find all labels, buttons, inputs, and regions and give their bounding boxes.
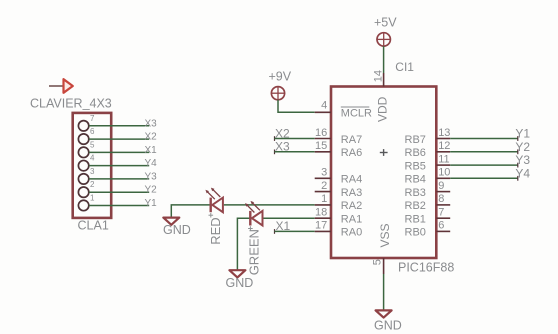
pin 6 stub (436, 230, 450, 232)
pin numbers left (315, 99, 327, 231)
ground under RED led (163, 218, 179, 225)
wire X3 to RA6 (274, 151, 314, 153)
svg-text:1: 1 (90, 194, 95, 203)
wire net Y1 (89, 204, 149, 206)
LED RED origin cross (209, 213, 214, 218)
svg-text:5: 5 (90, 140, 95, 149)
pin stubs right (436, 139, 450, 232)
svg-text:Y3: Y3 (145, 171, 158, 182)
pin 10 stub (436, 177, 450, 179)
pin circle 3 (78, 174, 88, 184)
wire net Y4 (RB4) (450, 177, 518, 179)
pin 13 stub (436, 138, 450, 140)
svg-text:GND: GND (163, 223, 191, 237)
svg-text:X3: X3 (145, 118, 158, 129)
svg-text:Y4: Y4 (145, 158, 158, 169)
svg-text:+5V: +5V (374, 16, 397, 30)
connector CLA1 body (73, 113, 112, 218)
pin 15 stub (315, 151, 331, 153)
svg-text:4: 4 (90, 154, 95, 163)
svg-text:3: 3 (321, 167, 327, 179)
pin 17 stub (315, 230, 331, 232)
svg-text:Y2: Y2 (515, 140, 530, 154)
ground under GREEN led (229, 270, 245, 277)
svg-text:11: 11 (438, 153, 449, 165)
svg-text:7: 7 (438, 207, 444, 219)
wire VSS to GND (383, 274, 385, 310)
svg-text:17: 17 (315, 220, 327, 232)
svg-text:6: 6 (438, 220, 444, 232)
pin names left (341, 108, 372, 239)
svg-text:GREEN: GREEN (247, 229, 262, 275)
wire net Y2 (89, 191, 149, 193)
svg-text:8: 8 (438, 193, 444, 205)
svg-text:RB2: RB2 (405, 200, 426, 212)
LED GREEN origin cross (248, 226, 253, 231)
svg-text:VSS: VSS (378, 223, 392, 247)
svg-text:3: 3 (90, 167, 95, 176)
pin 12 stub (436, 151, 450, 153)
svg-text:RA7: RA7 (341, 134, 362, 146)
svg-text:2: 2 (90, 180, 95, 189)
svg-text:2: 2 (321, 180, 327, 192)
wire net Y3 (89, 178, 149, 180)
svg-text:RA4: RA4 (341, 174, 362, 186)
wire RED led anode to RA2 (224, 204, 315, 206)
wire net Y4 (89, 165, 149, 167)
svg-text:X1: X1 (145, 145, 158, 156)
svg-text:10: 10 (438, 167, 450, 179)
svg-text:Y2: Y2 (145, 185, 158, 196)
wire net X3 (89, 125, 149, 127)
pin circle 7 (78, 121, 88, 131)
LED D2 GREEN cathode bar (249, 211, 251, 226)
pin circle 1 (78, 200, 88, 210)
wire net X1 (89, 151, 149, 153)
pin 4 stub (315, 111, 331, 113)
svg-text:RB3: RB3 (405, 187, 426, 199)
pin 8 stub (436, 204, 450, 206)
pin circle 6 (78, 134, 88, 144)
svg-text:RB4: RB4 (405, 174, 426, 186)
wire +9V to MCLR (278, 100, 315, 113)
svg-text:Y3: Y3 (515, 153, 530, 167)
svg-text:RA2: RA2 (341, 200, 362, 212)
pin 11 stub (436, 164, 450, 166)
svg-text:RB7: RB7 (405, 134, 426, 146)
pin 18 stub (315, 217, 331, 219)
ground under VSS (376, 310, 392, 317)
svg-text:RED: RED (208, 217, 223, 244)
svg-text:1: 1 (321, 193, 327, 205)
svg-text:12: 12 (438, 140, 450, 152)
svg-text:CLA1: CLA1 (78, 219, 109, 233)
junction arrow marker (49, 79, 73, 93)
wire net Y1 (RB7) (450, 138, 518, 140)
supply +5V (376, 32, 391, 47)
pin names right (405, 134, 426, 239)
svg-text:X2: X2 (145, 132, 158, 143)
pin circle 5 (78, 147, 88, 157)
svg-text:CI1: CI1 (395, 60, 414, 74)
LED D2 GREEN triangle (252, 211, 263, 226)
svg-text:RB6: RB6 (405, 147, 426, 159)
wire X1 to RA0 (274, 230, 314, 232)
svg-text:18: 18 (315, 207, 327, 219)
LED D1 RED cathode bar (209, 198, 211, 213)
svg-text:MCLR: MCLR (341, 108, 372, 120)
pin 5 stub (VSS) (383, 258, 385, 274)
svg-text:RB1: RB1 (405, 214, 426, 226)
supply +9V (271, 86, 285, 101)
svg-text:RA3: RA3 (341, 187, 362, 199)
svg-text:5: 5 (371, 259, 383, 265)
pin 2 stub (315, 191, 331, 193)
pin circle 2 (78, 187, 88, 197)
svg-text:15: 15 (315, 140, 327, 152)
svg-text:Y1: Y1 (515, 127, 530, 141)
svg-text:PIC16F88: PIC16F88 (398, 260, 454, 274)
pin 14 stub (VDD) (383, 73, 385, 87)
wire GREEN led anode to RA1 (264, 217, 315, 219)
svg-text:VDD: VDD (376, 96, 390, 122)
svg-text:7: 7 (90, 114, 95, 123)
MCLR overline (341, 106, 370, 108)
pin 7 stub (436, 217, 450, 219)
LED D1 RED triangle (212, 198, 223, 213)
svg-text:RB5: RB5 (405, 160, 426, 172)
svg-text:14: 14 (372, 70, 384, 82)
pin numbers right (438, 127, 450, 232)
pin 1 stub (315, 204, 331, 206)
svg-text:+9V: +9V (269, 70, 292, 84)
pin 3 stub (315, 177, 331, 179)
svg-text:RB0: RB0 (405, 227, 426, 239)
svg-text:6: 6 (90, 127, 95, 136)
LED D1 RED emission arrows (205, 188, 220, 200)
wire net Y2 (RB6) (450, 151, 518, 153)
svg-text:Y1: Y1 (145, 198, 158, 209)
svg-text:GND: GND (226, 276, 254, 290)
wire X2 to RA7 (274, 138, 314, 140)
wire net Y3 (RB5) (450, 164, 518, 166)
svg-text:Y4: Y4 (515, 166, 530, 180)
svg-text:CLAVIER_4X3: CLAVIER_4X3 (30, 96, 112, 110)
LED D2 GREEN : gnd wire (237, 218, 249, 270)
pin 9 stub (436, 191, 450, 193)
pin circle 4 (78, 160, 88, 170)
LED D1 RED : gnd wire (171, 205, 210, 217)
svg-text:RA6: RA6 (341, 147, 362, 159)
svg-text:9: 9 (438, 180, 444, 192)
svg-text:RA0: RA0 (341, 227, 362, 239)
IC CI1 PIC16F88 body (331, 87, 436, 259)
svg-text:RA1: RA1 (341, 214, 362, 226)
pin stubs left (315, 112, 331, 231)
svg-text:4: 4 (321, 99, 327, 111)
LED D2 GREEN emission arrows (245, 201, 260, 213)
origin cross (380, 149, 388, 156)
svg-text:16: 16 (315, 127, 327, 139)
wire +5V to VDD (383, 46, 385, 73)
wire net X2 (89, 138, 149, 140)
pin 16 stub (315, 138, 331, 140)
svg-text:13: 13 (438, 127, 450, 139)
svg-text:GND: GND (374, 319, 402, 333)
